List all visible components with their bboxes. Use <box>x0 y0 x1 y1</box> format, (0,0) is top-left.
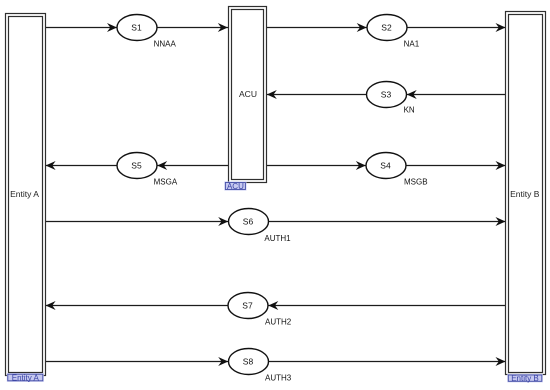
svg-text:AUTH3: AUTH3 <box>265 374 292 383</box>
svg-text:NA1: NA1 <box>404 39 420 48</box>
svg-text:S3: S3 <box>381 89 392 99</box>
svg-text:MSGB: MSGB <box>404 178 428 187</box>
svg-text:AUTH2: AUTH2 <box>265 318 292 327</box>
svg-text:MSGA: MSGA <box>154 178 178 187</box>
svg-text:Entity B: Entity B <box>511 374 539 383</box>
svg-text:Entity A: Entity A <box>10 189 39 199</box>
svg-text:S5: S5 <box>131 160 142 170</box>
svg-text:AUTH1: AUTH1 <box>264 234 291 243</box>
svg-text:NNAA: NNAA <box>154 39 177 48</box>
svg-text:Entity B: Entity B <box>510 189 540 199</box>
svg-text:KN: KN <box>404 106 415 115</box>
svg-text:S7: S7 <box>242 300 253 310</box>
svg-text:S2: S2 <box>381 22 392 32</box>
svg-text:Entity A: Entity A <box>12 373 40 382</box>
svg-text:S8: S8 <box>243 356 254 366</box>
svg-text:S6: S6 <box>243 216 254 226</box>
svg-text:ACU: ACU <box>239 89 257 99</box>
svg-text:S1: S1 <box>131 22 142 32</box>
svg-text:ACU: ACU <box>227 182 244 191</box>
svg-text:S4: S4 <box>380 160 391 170</box>
